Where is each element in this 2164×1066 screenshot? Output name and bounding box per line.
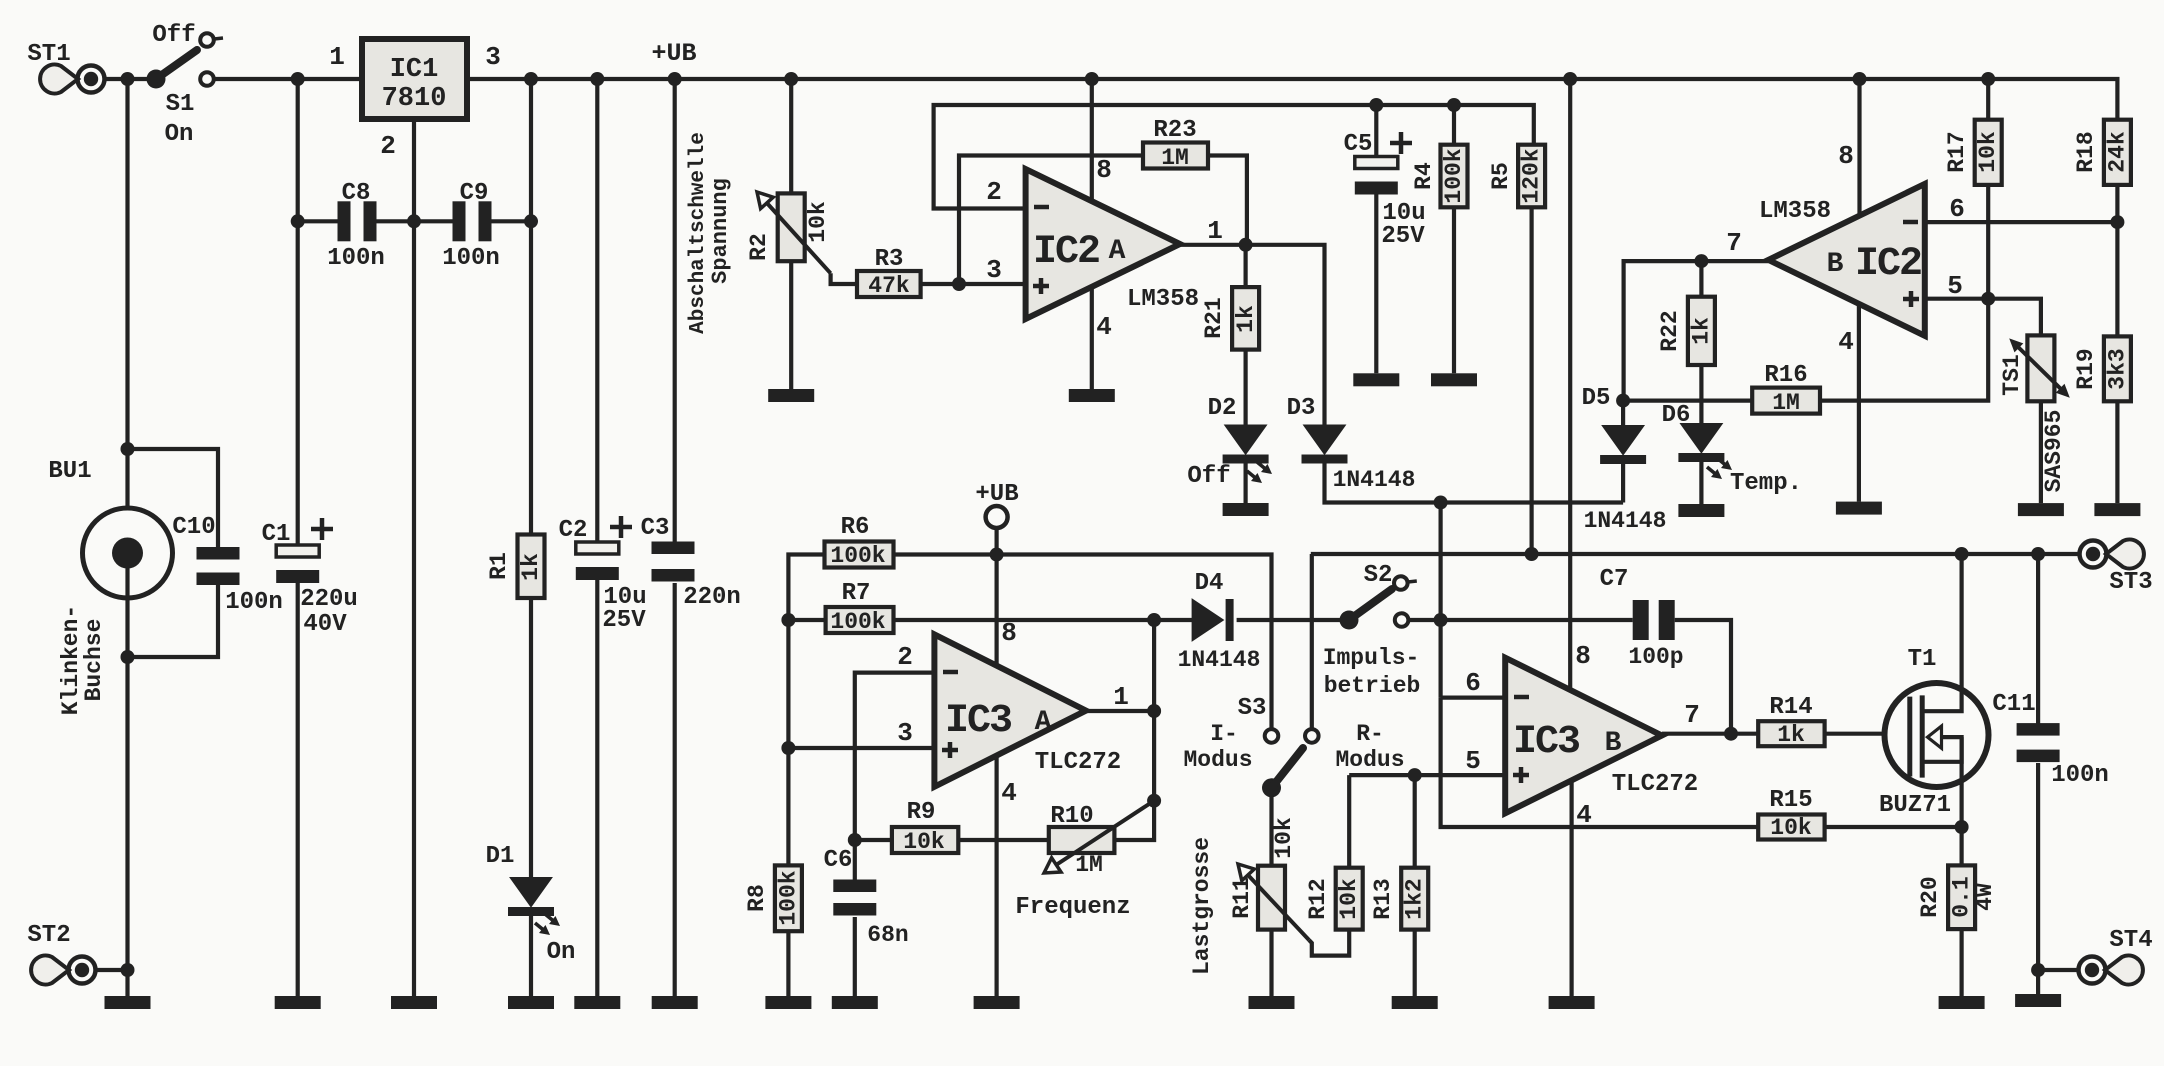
wire C10 branch (128, 449, 219, 547)
svg-text:1M: 1M (1161, 145, 1189, 171)
resistor R6 (825, 514, 894, 569)
resistor R23 (1143, 117, 1208, 171)
capacitor C1 (262, 518, 358, 638)
ground D1 (508, 996, 554, 1009)
switch S2 (1340, 562, 1417, 630)
svg-text:C9: C9 (460, 180, 489, 207)
potentiometer R2 (746, 192, 831, 273)
resistor R17 (1944, 79, 2002, 185)
wire IC2B pin8 (1838, 79, 1859, 216)
capacitor C2 (559, 516, 647, 634)
op-amp IC3A (934, 634, 1121, 786)
node D3/S2 branch (1434, 496, 1448, 510)
node junction ST1/BU1 branch (121, 72, 135, 86)
wire R19 down (2115, 401, 2119, 503)
svg-text:1: 1 (1207, 216, 1223, 246)
svg-text:R13: R13 (1370, 878, 1396, 919)
wire C11 ground (2036, 970, 2040, 994)
svg-text:C10: C10 (172, 514, 215, 541)
node pin5/R17/R16 (1981, 292, 1995, 306)
capacitor C5 (1344, 105, 1426, 250)
svg-text:R12: R12 (1305, 878, 1331, 919)
node D5 top (1616, 394, 1630, 408)
svg-text:C1: C1 (262, 521, 291, 548)
wire TS1 down (2039, 401, 2043, 503)
svg-text:ST3: ST3 (2109, 569, 2152, 596)
wire R14 to gate (1825, 732, 1906, 736)
node ST2 join (121, 963, 135, 977)
wire IC3B output (1662, 700, 1758, 734)
svg-text:R18: R18 (2073, 131, 2099, 172)
capacitor C7 (1600, 566, 1684, 670)
switch S3 contact right (1305, 721, 1405, 773)
node pin6/R18/R19 (2110, 215, 2124, 229)
node +UB/R6 (990, 548, 1004, 562)
svg-text:1k: 1k (518, 553, 544, 581)
wire C7 to output (1675, 620, 1731, 734)
svg-text:C7: C7 (1600, 566, 1629, 593)
wire C11 column (2036, 554, 2040, 724)
wire T1 source (1959, 787, 1963, 866)
svg-text:LM358: LM358 (1127, 286, 1199, 313)
regulator IC1 7810 (362, 39, 501, 161)
wire R7 to D4 (894, 618, 1193, 622)
ground C3 (652, 996, 698, 1009)
resistor R16 (1752, 362, 1820, 416)
node R7 left (781, 613, 795, 627)
svg-text:Buchse: Buchse (81, 619, 107, 702)
ground IC1 pin2 (391, 996, 437, 1009)
wire R-Modus vertical (1310, 554, 1314, 729)
svg-text:ST2: ST2 (27, 922, 70, 949)
svg-text:D2: D2 (1208, 395, 1237, 422)
svg-text:R22: R22 (1657, 310, 1683, 351)
wire T1 drain (1959, 554, 1963, 684)
node rail C3 (668, 72, 682, 86)
svg-text:5: 5 (1947, 271, 1963, 301)
wire IC3B pin8 (1570, 79, 1591, 689)
svg-text:8: 8 (1001, 618, 1017, 648)
node pin2 line C5 (1369, 98, 1383, 112)
ground R4 (1431, 373, 1477, 386)
wire ST1 to S1 (104, 77, 148, 81)
node rail C2 (590, 72, 604, 86)
svg-text:SAS965: SAS965 (2041, 410, 2067, 493)
label Abschaltschwelle Spannung (687, 132, 733, 334)
wire R18 down (2115, 185, 2119, 337)
ground C6 (832, 996, 878, 1009)
node pin7 R22 (1694, 254, 1708, 268)
svg-text:IC1: IC1 (390, 55, 439, 85)
resistor R9 (855, 799, 959, 855)
svg-text:R20: R20 (1917, 876, 1943, 917)
ground C11 (2015, 994, 2061, 1007)
wire C11 down (2036, 763, 2040, 970)
svg-text:R21: R21 (1201, 297, 1227, 338)
resistor R18 (2073, 120, 2131, 185)
svg-text:25V: 25V (602, 607, 646, 634)
node C9 right (524, 214, 538, 228)
svg-text:D6: D6 (1662, 402, 1691, 429)
resistor R13 (1370, 868, 1428, 930)
svg-text:7: 7 (1684, 700, 1700, 730)
svg-text:Lastgrosse: Lastgrosse (1189, 837, 1215, 975)
svg-text:Impuls-: Impuls- (1323, 645, 1420, 671)
wire C10 to BU1 center (128, 585, 219, 658)
svg-text:120k: 120k (1519, 148, 1545, 203)
resistor R7 (826, 580, 894, 635)
svg-text:D5: D5 (1582, 385, 1611, 412)
diode D5 (1582, 385, 1667, 534)
svg-text:25V: 25V (1381, 223, 1425, 250)
wire C3 column (673, 79, 677, 542)
svg-text:R14: R14 (1769, 694, 1812, 721)
wire IC1 pin2 (412, 119, 416, 996)
diode D1 LED (486, 843, 576, 966)
svg-text:2: 2 (897, 642, 913, 672)
svg-text:LM358: LM358 (1759, 198, 1831, 225)
wire C2 down (595, 580, 599, 996)
ground IC2B pin4 (1836, 502, 1882, 515)
label Impulsbetrieb (1323, 645, 1421, 699)
label +UB (651, 39, 696, 68)
resistor R1 (486, 535, 545, 599)
svg-text:D3: D3 (1287, 395, 1316, 422)
wire D2 down (1243, 462, 1247, 503)
node rail C1 (291, 72, 305, 86)
svg-text:A: A (1109, 236, 1126, 267)
node C10 join (121, 650, 135, 664)
capacitor C10 (172, 514, 282, 616)
potentiometer R10 (1015, 801, 1154, 921)
node IC3A out (1147, 704, 1161, 718)
svg-text:100k: 100k (830, 609, 885, 635)
svg-text:C8: C8 (342, 180, 371, 207)
svg-text:S2: S2 (1364, 562, 1393, 589)
svg-text:68n: 68n (867, 922, 908, 948)
svg-text:Off: Off (152, 22, 195, 49)
wire R23 to output (1208, 156, 1247, 245)
capacitor C6 (824, 840, 909, 948)
node rail R2 (784, 72, 798, 86)
svg-text:100p: 100p (1628, 644, 1683, 670)
svg-text:TS1: TS1 (1999, 354, 2025, 395)
node pin2 line R4 (1447, 98, 1461, 112)
switch S3 lever (1262, 748, 1303, 797)
svg-text:On: On (165, 121, 194, 148)
wire IC2B output (1624, 228, 1769, 401)
svg-text:ST4: ST4 (2109, 927, 2152, 954)
wire C1 column (296, 79, 300, 546)
svg-text:A: A (1035, 707, 1052, 738)
wire D6 down (1699, 461, 1703, 504)
svg-text:1N4148: 1N4148 (1178, 647, 1261, 673)
resistor R20 (1917, 865, 1998, 929)
wire IC3A output (1086, 682, 1154, 712)
wire R2 wiper to R3 (831, 273, 857, 284)
svg-text:S1: S1 (166, 91, 195, 118)
svg-text:4: 4 (1838, 327, 1854, 357)
svg-text:+UB: +UB (651, 39, 696, 68)
wire IC3B pin5 (1349, 746, 1505, 776)
svg-text:BUZ71: BUZ71 (1879, 792, 1951, 819)
svg-text:4: 4 (1096, 312, 1112, 342)
ground R19 (2094, 503, 2140, 516)
wire S1 to IC1 pin1 (214, 42, 361, 79)
svg-text:B: B (1827, 249, 1844, 280)
wire out down (1114, 711, 1154, 840)
svg-text:2: 2 (986, 177, 1002, 207)
wire R3 to IC2A pin3 (921, 255, 1026, 285)
wire C5 down (1374, 194, 1378, 373)
node D4 tap (1147, 613, 1161, 627)
svg-text:100n: 100n (442, 245, 500, 272)
wire D1 down (529, 915, 533, 996)
node source/R15 (1955, 820, 1969, 834)
svg-text:R7: R7 (842, 580, 871, 607)
node rail R5 (1525, 547, 1539, 561)
wire S3 I-Modus (1183, 695, 1266, 773)
wire C2 column (595, 79, 599, 543)
ground R13 (1392, 996, 1438, 1009)
switch S1 (147, 22, 224, 148)
svg-text:R3: R3 (875, 246, 904, 273)
svg-text:R6: R6 (841, 514, 870, 541)
diode D4 1N4148 (1178, 570, 1261, 673)
svg-text:C5: C5 (1344, 131, 1373, 158)
svg-text:On: On (547, 939, 576, 966)
svg-text:TLC272: TLC272 (1035, 749, 1121, 776)
svg-text:10k: 10k (1975, 131, 2001, 173)
wire R2 bottom (789, 261, 793, 389)
svg-text:TLC272: TLC272 (1612, 771, 1698, 798)
svg-text:C2: C2 (559, 517, 588, 544)
svg-text:Temp.: Temp. (1730, 470, 1802, 497)
wire IC3B pin6 (1441, 668, 1506, 698)
resistor R21 (1201, 245, 1259, 350)
jack BU1 (48, 458, 172, 598)
svg-text:4: 4 (1001, 778, 1017, 808)
wire D5 down (1621, 463, 1625, 503)
op-amp IC2B (1759, 184, 1925, 336)
op-amp IC2A (1026, 169, 1199, 319)
svg-text:IC2: IC2 (1033, 230, 1099, 275)
node rail IC2B pin8 (1853, 72, 1867, 86)
svg-text:R10: R10 (1050, 803, 1093, 830)
wire S2 to C7 (1408, 618, 1632, 622)
svg-text:1k: 1k (1233, 305, 1259, 333)
wire R2 top (789, 79, 793, 193)
svg-text:IC3: IC3 (1513, 720, 1579, 765)
svg-text:BU1: BU1 (48, 458, 91, 485)
svg-text:R23: R23 (1153, 117, 1196, 144)
wire IC3A pin4 (997, 756, 1017, 996)
node pin3 branch (781, 741, 795, 755)
svg-text:1M: 1M (1075, 852, 1103, 878)
node pin2/C8C9 (407, 214, 421, 228)
wire R11 down (1269, 930, 1273, 996)
wire R6 left (788, 555, 824, 866)
svg-text:1k: 1k (1688, 317, 1714, 345)
resistor R8 (744, 865, 802, 931)
svg-text:8: 8 (1575, 641, 1591, 671)
ground C2 (574, 996, 620, 1009)
capacitor C11 (1992, 691, 2108, 789)
svg-text:R4: R4 (1411, 162, 1437, 190)
svg-text:Modus: Modus (1335, 747, 1404, 773)
svg-text:5: 5 (1465, 746, 1481, 776)
svg-text:1k2: 1k2 (1402, 878, 1428, 919)
svg-text:Frequenz: Frequenz (1015, 894, 1130, 921)
label Klinken-Buchse (58, 605, 107, 715)
op-amp IC3B (1505, 658, 1698, 814)
svg-text:10k: 10k (1336, 878, 1362, 920)
wire R13 top (1413, 775, 1417, 868)
wire R11 wiper to R12 (1309, 930, 1349, 956)
resistor R3 (857, 246, 921, 299)
resistor R4 (1411, 105, 1468, 207)
svg-text:6: 6 (1465, 668, 1481, 698)
node IC2A out R21 (1239, 238, 1253, 252)
svg-text:8: 8 (1096, 155, 1112, 185)
svg-text:100n: 100n (2051, 762, 2109, 789)
wire R5 down (1529, 207, 1533, 554)
svg-text:Spannung: Spannung (708, 178, 733, 284)
wire BU1 down (125, 553, 129, 996)
svg-text:R11: R11 (1229, 877, 1255, 918)
wire IC2A pin8 (1092, 79, 1112, 202)
resistor R22 (1657, 261, 1715, 365)
wire R16 to pin5 (1820, 299, 1988, 401)
resistor R15 (1758, 787, 1824, 841)
wire IC2A output (1180, 216, 1325, 426)
wire R8 down (786, 931, 790, 996)
node ST4 (2031, 963, 2045, 977)
wire R1 to D1 (529, 598, 533, 878)
svg-text:C3: C3 (641, 515, 670, 542)
svg-text:T1: T1 (1908, 646, 1937, 673)
wire R22 down (1699, 365, 1703, 401)
svg-text:10k: 10k (903, 829, 945, 855)
capacitor C8 (327, 180, 385, 272)
node pin2/C6/R9 (848, 833, 862, 847)
ground C5 (1353, 373, 1399, 386)
svg-text:1N4148: 1N4148 (1333, 467, 1416, 493)
label +UB node (975, 481, 1018, 528)
svg-text:100k: 100k (775, 870, 801, 925)
svg-text:R-: R- (1356, 721, 1384, 747)
svg-text:betrieb: betrieb (1324, 673, 1421, 699)
svg-text:0.1: 0.1 (1949, 876, 1975, 917)
node rail IC2A pin8 (1085, 72, 1099, 86)
wire R12 top (1347, 775, 1351, 868)
switch S3 contact left (1265, 729, 1279, 743)
svg-text:S3: S3 (1238, 695, 1267, 722)
ground R11 (1249, 996, 1295, 1009)
svg-text:3: 3 (485, 42, 501, 72)
wire C1 down (296, 583, 300, 996)
svg-text:R17: R17 (1944, 131, 1970, 172)
resistor R5 (1488, 145, 1545, 208)
ground D2 (1223, 503, 1269, 516)
wire +UB to pin8 (997, 528, 1017, 666)
svg-text:1N4148: 1N4148 (1584, 508, 1667, 534)
ground C1 (275, 996, 321, 1009)
wire R16 line left (1623, 399, 1752, 403)
svg-text:C11: C11 (1992, 691, 2035, 718)
svg-text:R19: R19 (2073, 348, 2099, 389)
svg-text:1: 1 (329, 42, 345, 72)
svg-text:220u: 220u (300, 586, 358, 613)
wire out up to D4 line (1152, 620, 1156, 712)
svg-text:40V: 40V (303, 611, 347, 638)
wire R1 column (529, 79, 533, 535)
svg-text:100k: 100k (830, 543, 885, 569)
wire IC2A pin4 (1092, 287, 1112, 389)
svg-text:B: B (1605, 728, 1622, 759)
wire +UB rail (467, 79, 2117, 120)
svg-text:100k: 100k (1441, 148, 1467, 203)
svg-text:R9: R9 (907, 799, 936, 826)
wire R13 down (1413, 930, 1417, 996)
wire R21 to D2 (1243, 350, 1247, 426)
node rail R1 (524, 72, 538, 86)
wire IC2B pin4 (1838, 305, 1859, 502)
svg-text:IC3: IC3 (945, 699, 1011, 744)
node R10 wiper (1147, 794, 1161, 808)
wire IC2A pin2 (934, 105, 1534, 209)
node S2/pin6 branch (1434, 613, 1448, 627)
wire R15 branch (1441, 698, 1759, 827)
ground IC3B pin4 (1549, 996, 1595, 1009)
node pin5 R13 (1408, 768, 1422, 782)
node IC2A pin3 (952, 277, 966, 291)
ground TS1 (2018, 503, 2064, 516)
ground R8 (765, 996, 811, 1009)
wire R6 line (894, 555, 1272, 730)
svg-text:R5: R5 (1488, 162, 1514, 190)
wire R20 down (1959, 929, 1963, 996)
wire C8 link (298, 219, 414, 223)
connector ST4 (2038, 927, 2153, 985)
svg-text:R15: R15 (1769, 787, 1812, 814)
svg-text:10k: 10k (1271, 817, 1297, 859)
ground IC2A pin4 (1069, 389, 1115, 402)
wire R15 to source (1825, 825, 1962, 829)
diode D2 LED Off (1187, 395, 1272, 490)
ground R20 (1939, 996, 1985, 1009)
svg-text:6: 6 (1949, 194, 1965, 224)
svg-text:ST1: ST1 (27, 41, 70, 68)
potentiometer R11 Lastgroesse (1189, 837, 1309, 975)
svg-text:8: 8 (1838, 141, 1854, 171)
wire IC2B pin6 (1925, 194, 2118, 224)
node output C7 (1724, 727, 1738, 741)
diode D3 (1287, 395, 1416, 493)
svg-text:4W: 4W (1972, 883, 1998, 911)
node BU1 branch (121, 442, 135, 456)
connector ST3 (2080, 539, 2153, 596)
ground IC3A pin4 (974, 996, 1020, 1009)
svg-text:7810: 7810 (382, 84, 447, 114)
node rail IC3B pin8 (1563, 72, 1577, 86)
transistor T1 BUZ71 (1879, 646, 1989, 819)
wire IC2B pin5 (1925, 271, 2041, 335)
svg-text:D4: D4 (1195, 570, 1224, 597)
svg-text:220n: 220n (683, 584, 741, 611)
wire C3 down (673, 583, 677, 996)
svg-text:IC2: IC2 (1855, 242, 1921, 287)
